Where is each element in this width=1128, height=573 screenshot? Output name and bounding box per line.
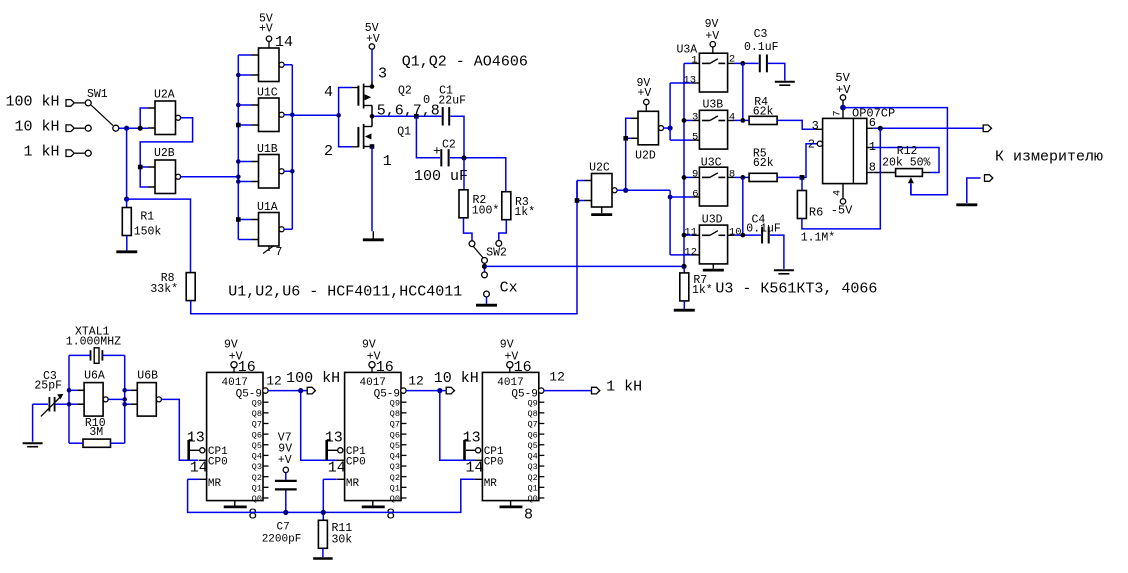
svg-text:5: 5 xyxy=(692,131,698,143)
svg-text:Q5: Q5 xyxy=(390,441,400,451)
svg-text:4017: 4017 xyxy=(497,377,523,389)
svg-text:22uF: 22uF xyxy=(438,95,466,108)
svg-text:100*: 100* xyxy=(472,205,500,218)
svg-text:2: 2 xyxy=(808,137,815,151)
svg-text:1.000MHZ: 1.000MHZ xyxy=(66,336,121,349)
svg-text:Q7: Q7 xyxy=(252,420,262,430)
svg-text:0.1uF: 0.1uF xyxy=(746,222,781,235)
svg-text:Q8: Q8 xyxy=(390,409,400,419)
svg-text:13: 13 xyxy=(683,74,696,86)
svg-text:Q3: Q3 xyxy=(252,462,262,472)
svg-text:4: 4 xyxy=(729,111,735,123)
svg-text:Q1,Q2 - AO4606: Q1,Q2 - AO4606 xyxy=(402,54,528,71)
svg-text:U2B: U2B xyxy=(154,147,175,160)
svg-text:12: 12 xyxy=(549,370,565,385)
svg-text:16: 16 xyxy=(238,359,256,376)
svg-text:10 kH: 10 kH xyxy=(434,370,479,387)
svg-text:CP0: CP0 xyxy=(484,457,504,469)
svg-text:7: 7 xyxy=(833,110,844,116)
svg-text:U3D: U3D xyxy=(702,214,723,227)
svg-text:1k*: 1k* xyxy=(514,206,535,219)
svg-text:+V: +V xyxy=(638,87,652,100)
svg-text:3M: 3M xyxy=(89,426,103,439)
svg-text:SW1: SW1 xyxy=(87,88,108,101)
svg-text:MR: MR xyxy=(346,478,360,490)
svg-text:+: + xyxy=(433,143,441,158)
svg-text:2200pF: 2200pF xyxy=(262,534,302,546)
svg-text:4: 4 xyxy=(324,84,333,101)
svg-text:4017: 4017 xyxy=(360,377,386,389)
svg-text:Q8: Q8 xyxy=(252,409,262,419)
svg-text:100 kH: 100 kH xyxy=(286,370,340,387)
svg-text:Q2: Q2 xyxy=(527,473,537,483)
svg-text:U1B: U1B xyxy=(257,143,278,156)
svg-text:Q6: Q6 xyxy=(527,430,537,440)
svg-text:+V: +V xyxy=(278,454,292,467)
svg-text:8: 8 xyxy=(524,507,533,524)
svg-text:9: 9 xyxy=(692,168,698,180)
svg-text:Q7: Q7 xyxy=(527,420,537,430)
svg-text:33k*: 33k* xyxy=(150,283,178,296)
svg-text:1 kH: 1 kH xyxy=(606,379,642,396)
svg-text:16: 16 xyxy=(376,359,394,376)
svg-text:U2C: U2C xyxy=(589,162,610,175)
svg-text:U6A: U6A xyxy=(84,369,105,382)
svg-text:Q6: Q6 xyxy=(390,430,400,440)
svg-text:Q9: Q9 xyxy=(527,398,537,408)
svg-text:Q5: Q5 xyxy=(527,441,537,451)
svg-text:U1A: U1A xyxy=(257,201,278,214)
svg-text:Q4: Q4 xyxy=(252,452,262,462)
svg-text:150k: 150k xyxy=(134,226,162,239)
svg-text:Q4: Q4 xyxy=(390,452,400,462)
svg-text:8: 8 xyxy=(729,168,735,180)
svg-text:Q1: Q1 xyxy=(252,484,262,494)
svg-text:+V: +V xyxy=(259,23,273,36)
svg-text:Q1: Q1 xyxy=(527,484,537,494)
svg-text:14: 14 xyxy=(275,34,293,51)
svg-text:14: 14 xyxy=(466,460,484,477)
svg-text:4017: 4017 xyxy=(222,377,248,389)
svg-text:U1,U2,U6 - HCF4011,HCC4011: U1,U2,U6 - HCF4011,HCC4011 xyxy=(228,283,462,300)
svg-text:CP0: CP0 xyxy=(208,457,228,469)
svg-text:3: 3 xyxy=(812,119,819,133)
svg-text:1.1M*: 1.1M* xyxy=(801,231,836,244)
svg-text:Q2: Q2 xyxy=(390,473,400,483)
svg-text:11: 11 xyxy=(684,226,697,238)
svg-text:10: 10 xyxy=(729,226,742,238)
svg-text:Q2: Q2 xyxy=(252,473,262,483)
svg-text:U6B: U6B xyxy=(137,369,158,382)
svg-text:Q3: Q3 xyxy=(527,462,537,472)
svg-text:14: 14 xyxy=(328,460,346,477)
svg-text:Q6: Q6 xyxy=(252,430,262,440)
svg-text:C3: C3 xyxy=(754,28,768,41)
svg-text:3: 3 xyxy=(378,66,387,83)
svg-text:U2A: U2A xyxy=(154,89,175,102)
svg-text:62k: 62k xyxy=(753,106,774,119)
svg-text:Q2: Q2 xyxy=(398,85,412,98)
svg-text:100 uF: 100 uF xyxy=(414,168,468,185)
svg-text:MR: MR xyxy=(208,478,222,490)
svg-text:1k*: 1k* xyxy=(692,284,713,297)
svg-text:30k: 30k xyxy=(332,534,353,547)
svg-text:0: 0 xyxy=(423,93,430,107)
svg-text:20k 50%: 20k 50% xyxy=(882,157,930,170)
svg-text:U3 - К561КТ3, 4066: U3 - К561КТ3, 4066 xyxy=(715,280,877,297)
svg-text:10 kH: 10 kH xyxy=(14,119,59,136)
svg-text:R1: R1 xyxy=(140,211,154,224)
svg-text:8: 8 xyxy=(248,507,257,524)
svg-text:4: 4 xyxy=(833,190,844,196)
svg-text:R6: R6 xyxy=(809,205,823,219)
svg-text:MR: MR xyxy=(484,478,498,490)
svg-text:Q5: Q5 xyxy=(252,441,262,451)
svg-text:Q4: Q4 xyxy=(527,452,537,462)
svg-text:SW2: SW2 xyxy=(486,247,507,260)
svg-text:12: 12 xyxy=(684,246,697,258)
svg-text:Cx: Cx xyxy=(500,280,518,297)
svg-text:C7: C7 xyxy=(277,522,290,534)
svg-text:1 kH: 1 kH xyxy=(23,144,59,161)
svg-text:3: 3 xyxy=(692,111,698,123)
svg-text:Q1: Q1 xyxy=(390,484,400,494)
svg-text:U1C: U1C xyxy=(257,87,278,100)
svg-text:CP0: CP0 xyxy=(346,457,366,469)
svg-text:100 kH: 100 kH xyxy=(5,93,59,110)
svg-text:U3C: U3C xyxy=(701,157,722,170)
svg-text:Q0: Q0 xyxy=(252,494,262,504)
svg-text:14: 14 xyxy=(190,460,208,477)
svg-text:0.1uF: 0.1uF xyxy=(744,41,779,54)
svg-text:2: 2 xyxy=(729,54,735,66)
svg-text:62k: 62k xyxy=(753,157,774,170)
svg-text:U2D: U2D xyxy=(635,150,656,163)
svg-text:1: 1 xyxy=(383,153,392,170)
svg-text:К измерителю: К измерителю xyxy=(995,148,1103,165)
svg-text:2: 2 xyxy=(324,143,333,160)
svg-text:C2: C2 xyxy=(442,139,456,152)
svg-text:6: 6 xyxy=(692,188,698,200)
svg-text:Q8: Q8 xyxy=(527,409,537,419)
svg-text:1: 1 xyxy=(691,54,697,66)
svg-text:Q9: Q9 xyxy=(390,398,400,408)
svg-text:U3B: U3B xyxy=(703,99,724,112)
svg-text:7: 7 xyxy=(276,246,283,259)
svg-text:Q9: Q9 xyxy=(252,398,262,408)
svg-text:Q3: Q3 xyxy=(390,462,400,472)
svg-text:Q0: Q0 xyxy=(527,494,537,504)
svg-text:16: 16 xyxy=(514,359,532,376)
svg-text:12: 12 xyxy=(266,374,282,389)
svg-text:25pF: 25pF xyxy=(34,379,62,392)
svg-text:-5V: -5V xyxy=(831,204,853,218)
svg-text:12: 12 xyxy=(408,374,424,389)
svg-text:8: 8 xyxy=(386,507,395,524)
svg-text:Q1: Q1 xyxy=(397,126,411,139)
svg-text:Q0: Q0 xyxy=(390,494,400,504)
svg-text:Q7: Q7 xyxy=(390,420,400,430)
